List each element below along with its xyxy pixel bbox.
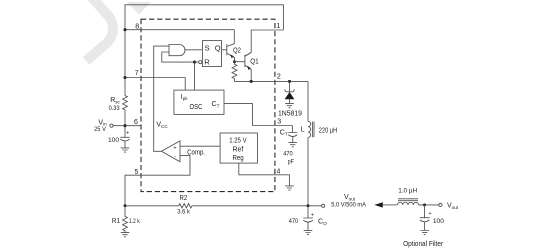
svg-text:8: 8 <box>135 24 139 31</box>
arrow to optional filter <box>374 202 383 207</box>
wire: filter output <box>419 204 439 206</box>
svg-text:100: 100 <box>108 137 119 144</box>
watermark triangle <box>127 2 151 15</box>
wire: ref to pin 4 ground <box>239 163 290 186</box>
R input bubble <box>199 61 202 64</box>
wire: pin 8 line <box>125 29 234 31</box>
terminal Vout <box>322 204 325 207</box>
svg-text:R2: R2 <box>180 195 188 202</box>
ground (CO) <box>304 230 313 234</box>
svg-text:L: L <box>301 127 305 134</box>
node Q1 emitter junction <box>250 80 253 83</box>
capacitor 100 filter <box>420 205 430 218</box>
svg-text:0.33: 0.33 <box>109 105 120 112</box>
svg-text:6: 6 <box>134 119 138 126</box>
svg-text:470: 470 <box>283 151 293 158</box>
svg-text:3.6 k: 3.6 k <box>177 209 190 216</box>
ground (diode) <box>285 104 294 108</box>
svg-text:5.0 V/500 mA: 5.0 V/500 mA <box>331 202 366 209</box>
capacitor CT 470pF <box>288 126 297 133</box>
watermark chevron <box>86 0 113 61</box>
node Vin junction <box>123 124 126 127</box>
ground (CT cap) <box>288 143 297 147</box>
wire: pin1 wrap to Q1 collector <box>245 30 284 56</box>
wire: CT out to pin 3 <box>224 104 292 126</box>
node pin8 junction <box>123 28 126 31</box>
svg-text:1.2 k: 1.2 k <box>129 218 140 225</box>
wire: top rail pin8/pin1 to Vin <box>125 5 283 96</box>
svg-text:2: 2 <box>277 74 281 81</box>
svg-text:470: 470 <box>289 218 299 225</box>
dashed IC boundary box <box>141 19 275 191</box>
svg-text:100: 100 <box>433 218 444 225</box>
node R line junction <box>193 61 196 64</box>
wire: AND top input from comparator <box>154 46 169 151</box>
svg-text:+: + <box>126 131 129 137</box>
svg-text:-: - <box>174 154 176 160</box>
svg-text:+: + <box>428 211 431 217</box>
node R1/R2 junction <box>124 204 127 207</box>
resistor R2 3.6k <box>179 204 192 208</box>
capacitor CO 470uF <box>303 206 313 218</box>
svg-text:3: 3 <box>277 118 281 125</box>
resistor (driver emitter) <box>232 62 237 82</box>
node Q2 emitter junction <box>233 60 236 63</box>
ground (filter cap) <box>420 231 429 235</box>
wire: output rail to Vout terminal <box>192 205 322 207</box>
wire: pin 2 line <box>235 80 309 82</box>
terminal Vin <box>110 124 113 127</box>
svg-text:1.0 µH: 1.0 µH <box>398 188 417 195</box>
svg-text:Ref: Ref <box>233 146 244 153</box>
node pin7 junction <box>123 76 126 79</box>
transistor Q2 <box>227 30 235 62</box>
SR latch U3 <box>202 41 221 67</box>
svg-text:Reg: Reg <box>233 155 244 162</box>
svg-text:Q: Q <box>215 43 221 52</box>
wire: AND bottom input wrap to R line <box>162 52 199 62</box>
svg-text:1: 1 <box>276 23 280 30</box>
diode 1N5819 <box>289 81 291 91</box>
svg-text:R1: R1 <box>112 218 120 225</box>
node diode junction <box>288 80 291 83</box>
node filter cap junction <box>423 203 426 206</box>
svg-text:25 V: 25 V <box>94 126 106 133</box>
wire: OSC to R vertical <box>194 62 196 90</box>
resistor R1 1.2k <box>123 206 128 233</box>
wire: comp + input to ref <box>180 145 220 147</box>
ground (pin 4) <box>285 186 294 190</box>
inductor 1.0uH filter <box>398 202 419 205</box>
inductor L 220uH <box>307 81 309 121</box>
svg-text:1.25 V: 1.25 V <box>229 138 247 145</box>
svg-text:S: S <box>205 43 210 52</box>
terminal Vout filter <box>439 203 442 206</box>
svg-text:1N5819: 1N5819 <box>278 111 302 118</box>
transistor Q1 <box>235 52 252 81</box>
AND gate U2 <box>169 45 185 56</box>
svg-text:4: 4 <box>276 168 280 175</box>
svg-text:pF: pF <box>288 158 294 165</box>
wire: R2 output rail <box>125 205 179 207</box>
capacitor 100uF input <box>120 126 129 138</box>
reference regulator block <box>220 133 257 163</box>
svg-text:5: 5 <box>134 169 138 176</box>
svg-text:Optional Filter: Optional Filter <box>403 239 443 248</box>
comparator <box>161 141 180 162</box>
wire: pin 7 line <box>125 78 185 91</box>
svg-text:+: + <box>173 146 176 152</box>
svg-text:OSC: OSC <box>190 104 203 111</box>
wire: Rsc to Vin node <box>124 110 126 126</box>
svg-text:Q1: Q1 <box>250 59 259 66</box>
ground (R1) <box>121 233 130 237</box>
node output junction <box>307 204 310 207</box>
svg-text:Q2: Q2 <box>233 48 241 55</box>
wire: comp - input to pin 5 <box>125 156 190 206</box>
wire: latch Q to Q2 base <box>222 49 227 51</box>
wire: Vin to pin 6 <box>113 125 141 127</box>
oscillator block <box>174 90 224 114</box>
ground (input cap) <box>121 148 130 152</box>
resistor Rsc <box>123 96 128 110</box>
svg-text:220 µH: 220 µH <box>319 127 337 134</box>
svg-text:+: + <box>311 212 314 218</box>
svg-text:7: 7 <box>135 70 139 77</box>
wire: AND output to latch S <box>185 49 202 51</box>
svg-text:R: R <box>204 57 210 66</box>
